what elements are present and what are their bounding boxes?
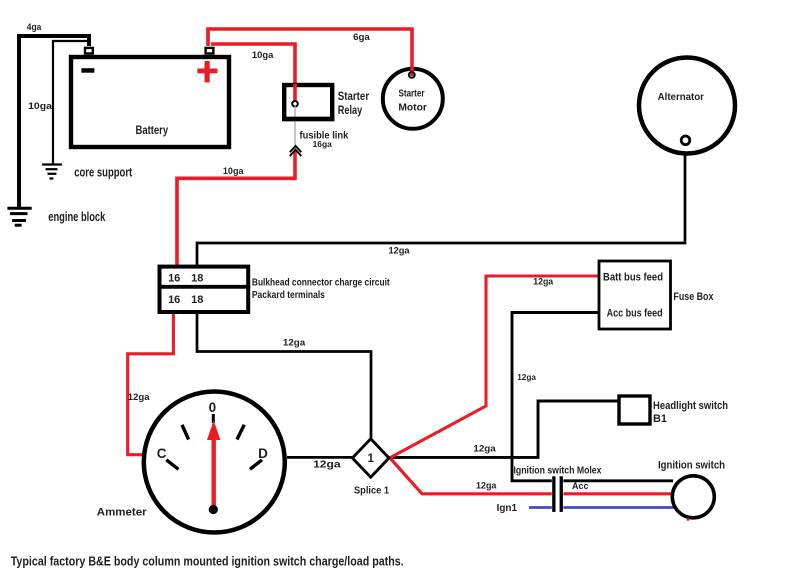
- svg-text:18: 18: [191, 273, 203, 285]
- wire red into relay over border: [293, 84, 297, 102]
- svg-text:engine block: engine block: [48, 210, 105, 224]
- battery positive terminal: [206, 48, 214, 54]
- svg-text:0: 0: [209, 400, 217, 415]
- svg-text:Batt bus feed: Batt bus feed: [603, 272, 663, 284]
- svg-text:Ignition switch: Ignition switch: [658, 459, 725, 471]
- svg-text:16: 16: [168, 294, 180, 306]
- svg-text:12ga: 12ga: [517, 372, 536, 382]
- ignition switch circle: [672, 476, 714, 518]
- svg-text:16ga: 16ga: [313, 140, 333, 149]
- svg-text:Fuse Box: Fuse Box: [673, 291, 714, 303]
- fusible link chevron arrow: [290, 146, 302, 156]
- svg-text:Alternator: Alternator: [658, 91, 704, 103]
- wire red fusible link to bulkhead: [177, 151, 295, 267]
- wire 12ga red splice 1 to ignition switch: [390, 458, 672, 494]
- svg-text:10ga: 10ga: [252, 50, 275, 60]
- svg-text:Ignition switch Molex: Ignition switch Molex: [514, 465, 602, 476]
- headlight switch box: [619, 396, 650, 424]
- wire 4ga battery negative to engine block ground: [19, 36, 89, 207]
- svg-text:12ga: 12ga: [476, 481, 497, 492]
- svg-text:12ga: 12ga: [283, 338, 306, 348]
- alternator terminal ring: [681, 136, 690, 145]
- svg-text:Splice 1: Splice 1: [354, 485, 389, 496]
- wire acc bus feed to ignition switch Acc: [512, 313, 673, 481]
- wire 12ga splice 1 to headlight switch: [389, 401, 619, 457]
- battery minus symbol: [81, 68, 94, 73]
- bulkhead connector box: [160, 267, 249, 312]
- svg-text:Relay: Relay: [338, 103, 363, 117]
- wire 6ga battery positive to starter motor: [208, 29, 412, 76]
- svg-text:6ga: 6ga: [353, 32, 371, 42]
- fuse box: [599, 261, 671, 329]
- splice 1 diamond: [352, 439, 389, 477]
- wire red stub into motor: [410, 66, 414, 76]
- bulkhead divider: [158, 285, 251, 289]
- svg-text:Bulkhead connector charge circ: Bulkhead connector charge circuit: [252, 278, 390, 289]
- svg-text:Motor: Motor: [398, 101, 427, 113]
- svg-text:1: 1: [367, 453, 374, 465]
- svg-text:Packard terminals: Packard terminals: [252, 290, 325, 301]
- svg-text:Ammeter: Ammeter: [97, 507, 148, 519]
- wire blue Ign1 to ignition switch: [529, 506, 674, 509]
- wire 12ga ammeter to splice 1: [287, 456, 353, 459]
- ignition switch molex connector: [552, 476, 564, 512]
- starter relay box: [284, 85, 332, 119]
- svg-text:12ga: 12ga: [313, 458, 341, 470]
- svg-text:Acc bus feed: Acc bus feed: [607, 308, 663, 320]
- wire 12ga bulkhead to splice 1: [197, 313, 371, 440]
- ammeter lower-right tick: [250, 460, 262, 470]
- battery box: [71, 57, 229, 147]
- wire 12ga red bulkhead to ammeter: [128, 313, 174, 455]
- relay box bottom border redrawn: [282, 117, 334, 121]
- ground core support: [42, 165, 62, 179]
- battery negative terminal: [85, 48, 93, 54]
- ammeter upper-left tick: [182, 425, 189, 440]
- wire 12ga alternator to bulkhead: [197, 145, 685, 267]
- ammeter pivot dot: [209, 505, 218, 514]
- svg-text:12ga: 12ga: [473, 443, 496, 454]
- ground engine block: [7, 208, 31, 225]
- ammeter upper-right tick: [237, 425, 244, 440]
- svg-text:16: 16: [168, 273, 180, 285]
- svg-text:Starter: Starter: [338, 89, 370, 103]
- starter relay terminal ring: [292, 101, 298, 107]
- svg-text:12ga: 12ga: [389, 246, 411, 256]
- svg-text:12ga: 12ga: [533, 277, 554, 287]
- alternator circle: [639, 58, 735, 154]
- wire 10ga battery negative to core support ground: [53, 41, 90, 163]
- ammeter needle: [211, 437, 215, 509]
- svg-text:Battery: Battery: [136, 123, 169, 137]
- svg-text:Ign1: Ign1: [497, 503, 518, 514]
- ignition switch red mark: [687, 518, 690, 521]
- svg-text:Headlight switch: Headlight switch: [653, 400, 728, 412]
- wire 10ga battery positive to starter relay: [211, 44, 295, 102]
- svg-text:Starter: Starter: [399, 88, 425, 100]
- svg-text:10ga: 10ga: [28, 101, 53, 111]
- ammeter circle: [144, 392, 285, 533]
- svg-text:Acc: Acc: [572, 481, 589, 491]
- svg-text:18: 18: [191, 294, 203, 306]
- svg-text:D: D: [258, 446, 268, 461]
- fusible link gray wire: [294, 107, 296, 151]
- svg-text:C: C: [157, 446, 167, 461]
- ammeter lower-left tick: [166, 460, 178, 470]
- svg-text:core support: core support: [74, 165, 133, 179]
- svg-text:12ga: 12ga: [128, 392, 151, 402]
- svg-text:10ga: 10ga: [223, 166, 245, 176]
- svg-text:B1: B1: [653, 413, 667, 425]
- svg-text:Typical factory B&E body colum: Typical factory B&E body column mounted …: [11, 555, 404, 569]
- wire 12ga red splice 1 to fuse box batt bus feed: [390, 276, 599, 458]
- ammeter top tick: [212, 414, 215, 423]
- svg-text:4ga: 4ga: [27, 22, 42, 32]
- starter motor terminal ring: [409, 72, 415, 78]
- starter motor circle: [383, 69, 443, 129]
- battery plus symbol: [197, 61, 217, 82]
